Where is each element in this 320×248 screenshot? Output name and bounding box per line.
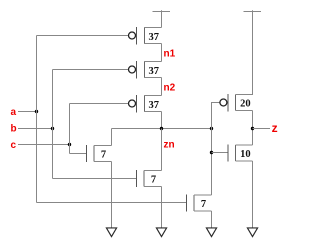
nmos M5 (value 7, gate b) [137, 170, 162, 187]
svg-text:n1: n1 [164, 49, 176, 60]
svg-text:b: b [11, 124, 17, 135]
vdd symbol VDD2 (top of inverter) [244, 10, 262, 95]
vdd symbol VDD1 (top of pmos stack) [153, 10, 171, 27]
svg-text:20: 20 [240, 99, 251, 110]
wire output z [253, 128, 271, 130]
pmos M7 (value 20, inverter pull-up) [220, 94, 253, 112]
ground symbol at M6 [206, 228, 216, 237]
wire c to M3 gate [70, 103, 129, 105]
wire a to M6 gate [37, 202, 187, 204]
wire node n1 (M1 drain to M2 source) [161, 44, 163, 62]
pmos M3 (value 37, gate c) [129, 95, 162, 113]
nmos M4 (value 7, gate c) [87, 145, 112, 162]
wire M6 source to ground [211, 211, 213, 228]
svg-text:37: 37 [149, 66, 160, 77]
junction dot c [68, 143, 71, 146]
svg-text:7: 7 [101, 150, 106, 161]
wire input c [18, 144, 70, 146]
wire c vertical bus [69, 104, 71, 154]
pmos M2 (value 37, gate b) [129, 61, 162, 79]
nmos M8 (value 10, inverter pull-down) [228, 145, 253, 162]
wire node n2 (M2 drain to M3 source) [161, 78, 163, 96]
svg-text:a: a [11, 107, 17, 118]
wire zn branch down to M6 drain [211, 129, 213, 196]
pmos M1 (value 37, gate a) [129, 27, 162, 45]
wire zn to M5 drain [161, 129, 163, 171]
junction dot a [35, 110, 38, 113]
svg-text:c: c [11, 140, 17, 151]
ground symbol at M8 [247, 228, 257, 237]
wire b to M5 gate [53, 178, 137, 180]
wire zn tap to inverter nmos gate [212, 152, 229, 154]
svg-text:7: 7 [201, 199, 206, 210]
wire M8 source to ground [252, 161, 254, 228]
wire M3 drain down to node zn rail [161, 112, 163, 129]
svg-text:37: 37 [149, 32, 160, 43]
ground symbol at M4 [106, 228, 116, 237]
svg-text:zn: zn [164, 140, 175, 151]
wire c to M4 gate [70, 153, 87, 155]
wire M5 source to ground [161, 187, 163, 228]
junction dot at zn / inverter branch [210, 127, 213, 130]
wire M7 drain to z node [252, 111, 254, 129]
wire z node to M8 drain [252, 129, 254, 146]
wire input a [18, 111, 37, 113]
wire a vertical bus [36, 36, 38, 203]
wire b to M2 gate [53, 69, 129, 71]
wire a to M1 gate [37, 35, 129, 37]
junction dot at inverter nmos gate tap [210, 151, 213, 154]
wire zn to inverter pmos gate [212, 103, 220, 129]
wire M4 source to ground [111, 162, 113, 228]
svg-text:37: 37 [149, 100, 160, 111]
wire zn left drop to M4 drain [111, 129, 113, 146]
wire zn rail (output of nor3) [112, 128, 212, 130]
svg-text:n2: n2 [164, 83, 176, 94]
junction dot at output z [251, 127, 254, 130]
junction dot b [51, 127, 54, 130]
ground symbol at M5 [156, 228, 166, 237]
nmos M6 (value 7, gate a) [187, 195, 212, 212]
svg-text:10: 10 [240, 149, 251, 160]
svg-text:7: 7 [151, 175, 156, 186]
junction dot at zn / M3 drain [160, 127, 163, 130]
svg-text:z: z [272, 121, 278, 135]
wire b vertical bus [52, 70, 54, 179]
wire input b [18, 128, 53, 130]
